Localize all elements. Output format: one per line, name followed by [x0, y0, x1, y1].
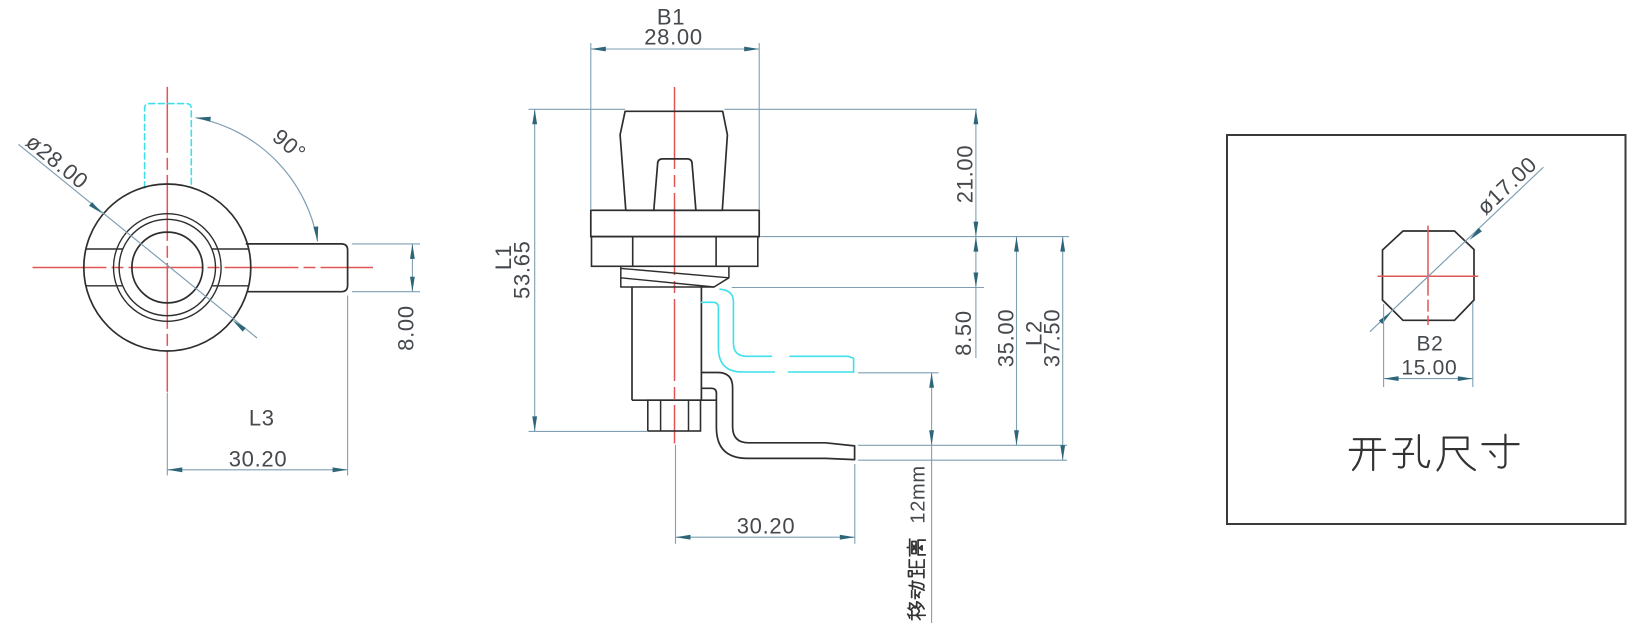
svg-text:8.50: 8.50: [951, 310, 976, 356]
svg-text:30.20: 30.20: [229, 447, 288, 472]
svg-text:8.00: 8.00: [394, 305, 419, 351]
svg-text:37.50: 37.50: [1040, 309, 1065, 368]
svg-text:28.00: 28.00: [644, 25, 703, 50]
svg-text:B2: B2: [1416, 333, 1443, 356]
svg-text:L3: L3: [249, 406, 275, 431]
svg-text:53.65: 53.65: [510, 240, 535, 299]
svg-text:35.00: 35.00: [994, 309, 1019, 368]
svg-text:12mm: 12mm: [908, 465, 930, 523]
svg-text:15.00: 15.00: [1401, 357, 1457, 380]
svg-text:21.00: 21.00: [953, 145, 978, 204]
svg-text:30.20: 30.20: [737, 514, 796, 539]
